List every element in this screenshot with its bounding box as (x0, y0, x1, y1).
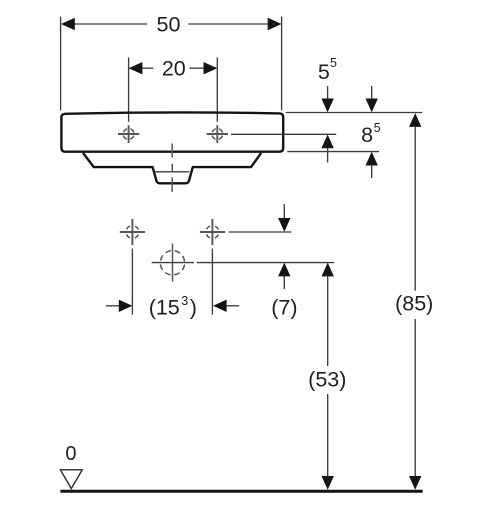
dimension 85: vertical line lower part (414, 319, 416, 476)
dimension 20: extension line left (128, 58, 130, 122)
dimension 15.3: left stem and arrowhead (106, 305, 119, 307)
basin rim outline (61, 112, 283, 151)
svg-text:(15: (15 (149, 295, 180, 319)
dimension 20: line segment left (142, 67, 153, 69)
dimension 50: line segment left (74, 23, 147, 25)
wall marker right: extension line down (211, 249, 213, 315)
wall marker left: extension line down (131, 249, 133, 315)
svg-text:(53): (53) (308, 367, 346, 391)
dimension 20: arrowhead left (129, 62, 143, 74)
drain inner lip line (155, 171, 190, 173)
dimension 20: arrowhead right (204, 62, 218, 74)
dimension 7: up arrow (278, 263, 290, 277)
wall marker right: cross (200, 231, 225, 233)
extension line from basin top to right (286, 112, 423, 114)
dimension 85: up arrow at top (409, 113, 421, 127)
wall marker right: dashed circle (206, 226, 219, 239)
dimension 5.5: up arrow (321, 135, 333, 149)
svg-text:5: 5 (318, 60, 330, 84)
dimension 20: line segment right (189, 67, 204, 69)
wall marker left: cross (120, 231, 145, 233)
dimension 53: vertical line upper part (327, 276, 329, 366)
dimension 5.5: down arrow (327, 86, 329, 99)
svg-text:3: 3 (181, 294, 188, 308)
faucet hole right: cross (207, 133, 228, 135)
dimension 50: arrowhead left (61, 18, 75, 30)
svg-text:(7): (7) (271, 295, 297, 319)
dimension 50: line segment right (189, 23, 269, 25)
dimension 53: vertical line lower part (327, 394, 329, 476)
dimension 50: arrowhead right (268, 18, 282, 30)
floor line (60, 490, 422, 493)
dimension 8.5: down arrow (371, 86, 373, 99)
dimension 50: extension line right (281, 17, 283, 111)
dimension 85: vertical line upper part (414, 127, 416, 291)
extension line from faucet hole centre to right (231, 133, 336, 135)
svg-text:): ) (190, 295, 197, 319)
dimension 53: up arrow at top (322, 263, 334, 277)
dimension 20: extension line right (216, 58, 218, 122)
svg-text:0: 0 (65, 443, 76, 465)
datum triangle (60, 470, 82, 489)
basin bowl outline (83, 153, 261, 183)
basin centerline segments (171, 144, 173, 158)
svg-text:50: 50 (157, 13, 181, 37)
extension line from drain centre to right (197, 262, 334, 264)
dimension 15.3: right stem and arrowhead (213, 300, 227, 312)
dimension 53: down arrow at floor (322, 476, 334, 490)
drain circle dashed (160, 251, 184, 275)
drain circle vertical centerline (172, 244, 174, 282)
dimension 85: down arrow at floor (409, 476, 421, 490)
dimension 8.5: up arrow (366, 152, 378, 166)
svg-text:20: 20 (162, 57, 186, 81)
extension line from rim bottom to right (287, 151, 379, 153)
faucet hole left: cross (118, 133, 139, 135)
faucet hole left: dashed circle (123, 129, 134, 140)
svg-text:(85): (85) (395, 291, 433, 315)
dimension 7: down arrow (283, 204, 285, 218)
wall marker left: dashed circle (126, 226, 139, 239)
svg-text:5: 5 (330, 56, 337, 70)
faucet hole right: dashed circle (212, 129, 223, 140)
drain circle horizontal centerline (152, 262, 194, 264)
dimension 50: extension line left (60, 17, 62, 111)
svg-text:8: 8 (361, 123, 373, 147)
svg-text:5: 5 (374, 121, 381, 135)
extension line from marker right to the right (229, 231, 292, 233)
